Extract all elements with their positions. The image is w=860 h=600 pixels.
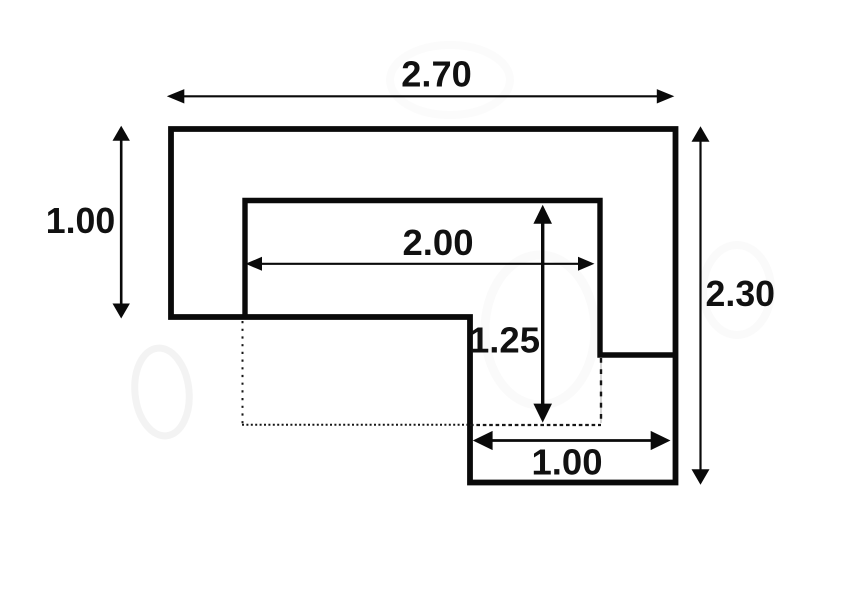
- hidden dotted line horizontal bottom: [242, 424, 470, 426]
- dimension arrow 2.00: [246, 257, 595, 271]
- dimension arrow 1.00 left: [113, 126, 130, 319]
- faint watermark ring right: [703, 245, 771, 335]
- svg-text:1.00: 1.00: [46, 200, 116, 241]
- dimension arrow 1.25: [533, 205, 552, 423]
- svg-text:2.70: 2.70: [401, 54, 472, 95]
- svg-text:2.00: 2.00: [402, 222, 473, 263]
- outer plate outline: [171, 129, 676, 483]
- faint watermark halo top: [390, 45, 510, 115]
- dimension arrow 1.00 bottom: [473, 431, 671, 450]
- svg-text:1.25: 1.25: [469, 319, 540, 360]
- dimension arrow 2.70: [167, 89, 675, 103]
- inner step outline: [245, 201, 676, 356]
- hidden dashed line vertical right: [600, 358, 602, 423]
- hidden dotted line vertical left: [242, 321, 244, 426]
- faint watermark ring center: [485, 255, 595, 405]
- dimension arrow 2.30: [692, 126, 710, 484]
- faint watermark ring left: [131, 345, 194, 438]
- svg-text:1.00: 1.00: [531, 442, 602, 483]
- svg-text:2.30: 2.30: [706, 273, 776, 314]
